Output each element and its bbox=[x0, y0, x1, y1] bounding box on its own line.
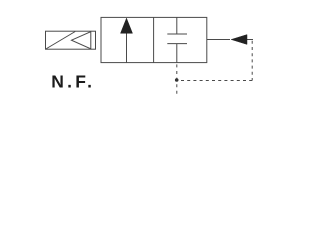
svg-text:N.F.: N.F. bbox=[51, 72, 95, 92]
solenoid coil Y1 body bbox=[46, 31, 96, 49]
pilot dashed wire vertical left bbox=[176, 64, 178, 94]
outlet stub after arrowhead bbox=[247, 39, 253, 41]
valve position divider bbox=[153, 17, 155, 62]
outlet wire bbox=[207, 39, 230, 41]
pilot dashed wire horizontal bottom bbox=[177, 80, 252, 82]
valve body outline bbox=[101, 17, 207, 62]
blocked port stem top bbox=[176, 17, 178, 34]
solenoid armature triangle bbox=[72, 32, 91, 49]
pilot junction node bbox=[175, 78, 179, 82]
solenoid coil diagonal bbox=[46, 32, 75, 50]
blocked port bar bottom bbox=[167, 43, 187, 45]
pilot dashed wire vertical right bbox=[251, 41, 253, 81]
flow arrowhead (filled) bbox=[121, 18, 133, 33]
outlet arrowhead (filled) bbox=[231, 35, 247, 45]
blocked port stem bottom bbox=[176, 44, 178, 63]
blocked port bar top bbox=[167, 33, 187, 35]
flow arrow stem (actuated position) bbox=[126, 33, 128, 63]
